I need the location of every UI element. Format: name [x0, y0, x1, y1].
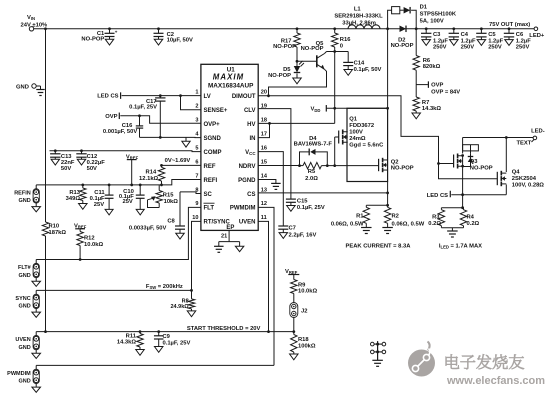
- svg-text:20: 20: [261, 90, 267, 96]
- svg-text:0.1µF, 25V: 0.1µF, 25V: [129, 104, 157, 110]
- svg-text:2.0Ω: 2.0Ω: [305, 176, 318, 182]
- svg-text:25V: 25V: [122, 199, 132, 205]
- svg-text:D1: D1: [420, 5, 428, 11]
- svg-text:NO-POP: NO-POP: [391, 43, 414, 49]
- svg-text:100V: 100V: [349, 129, 363, 135]
- svg-text:0.001µF, 50V: 0.001µF, 50V: [103, 129, 137, 135]
- svg-text:BAV16WS-7-F: BAV16WS-7-F: [294, 142, 333, 148]
- svg-text:R10: R10: [49, 224, 60, 230]
- svg-text:C3: C3: [433, 32, 441, 38]
- svg-text:5: 5: [195, 145, 198, 151]
- svg-text:R14: R14: [146, 170, 157, 176]
- svg-text:2: 2: [195, 104, 198, 110]
- svg-text:250V: 250V: [461, 44, 475, 50]
- svg-text:SYNC: SYNC: [15, 296, 30, 302]
- svg-text:R15: R15: [163, 193, 174, 199]
- svg-text:15: 15: [261, 159, 267, 165]
- svg-text:VDD: VDD: [311, 107, 321, 113]
- svg-text:Q2: Q2: [391, 159, 399, 165]
- svg-text:VREF: VREF: [126, 154, 139, 160]
- svg-text:NO-POP: NO-POP: [470, 165, 493, 171]
- svg-text:LED CS: LED CS: [427, 193, 448, 199]
- svg-text:NO-POP: NO-POP: [391, 166, 414, 172]
- svg-text:10kΩ: 10kΩ: [164, 199, 179, 205]
- svg-text:C6: C6: [516, 32, 524, 38]
- svg-text:HV: HV: [247, 122, 255, 128]
- svg-text:187kΩ: 187kΩ: [49, 230, 67, 236]
- svg-text:12.1kΩ: 12.1kΩ: [139, 176, 159, 182]
- svg-text:Ggd = 5.6nC: Ggd = 5.6nC: [349, 142, 384, 148]
- svg-text:GND: GND: [16, 84, 29, 90]
- svg-text:10.0kΩ: 10.0kΩ: [84, 242, 104, 248]
- svg-text:OVP: OVP: [105, 114, 117, 120]
- svg-text:C4: C4: [461, 32, 469, 38]
- svg-text:24mΩ: 24mΩ: [349, 136, 366, 142]
- svg-text:250V: 250V: [488, 44, 502, 50]
- svg-text:21: 21: [221, 234, 227, 240]
- svg-text:SENSE+: SENSE+: [204, 108, 228, 114]
- svg-text:NDRV: NDRV: [239, 164, 256, 170]
- svg-text:LED-: LED-: [531, 129, 545, 135]
- svg-text:0.06Ω, 0.5W: 0.06Ω, 0.5W: [392, 222, 425, 228]
- svg-text:www.elecfans.com: www.elecfans.com: [446, 375, 545, 387]
- svg-text:50V: 50V: [61, 166, 71, 172]
- svg-text:14.3kΩ: 14.3kΩ: [422, 106, 442, 112]
- svg-text:VREF: VREF: [74, 224, 87, 230]
- svg-text:VREF: VREF: [285, 269, 298, 275]
- svg-text:0.06Ω, 0.5W: 0.06Ω, 0.5W: [331, 222, 364, 228]
- svg-text:START THRESHOLD = 20V: START THRESHOLD = 20V: [187, 326, 261, 332]
- svg-text:0.1µF, 25V: 0.1µF, 25V: [163, 340, 191, 346]
- svg-text:18: 18: [261, 118, 267, 124]
- svg-text:25V: 25V: [94, 202, 104, 208]
- svg-text:SGND: SGND: [204, 136, 222, 142]
- svg-text:CS: CS: [247, 192, 255, 198]
- svg-text:MAX16834AUP: MAX16834AUP: [208, 83, 254, 90]
- svg-text:LED CS: LED CS: [97, 94, 118, 100]
- svg-text:VCC: VCC: [245, 150, 256, 156]
- svg-text:0.2Ω: 0.2Ω: [467, 221, 480, 227]
- svg-text:OVP: OVP: [431, 83, 443, 89]
- svg-text:SC: SC: [204, 192, 213, 198]
- svg-text:GND: GND: [18, 345, 30, 351]
- svg-text:STPS5H100K: STPS5H100K: [420, 12, 457, 18]
- svg-text:OVP = 84V: OVP = 84V: [431, 90, 460, 96]
- svg-text:VIN: VIN: [27, 15, 35, 21]
- svg-text:C16: C16: [122, 123, 133, 129]
- svg-text:GND: GND: [18, 198, 30, 204]
- svg-text:UVEN: UVEN: [239, 220, 256, 226]
- svg-text:FDD3672: FDD3672: [349, 123, 374, 129]
- svg-text:100kΩ: 100kΩ: [298, 343, 316, 349]
- svg-text:R16: R16: [340, 37, 351, 43]
- svg-text:SER2918H-333KL: SER2918H-333KL: [334, 14, 383, 20]
- svg-text:C14: C14: [354, 61, 365, 67]
- svg-text:R4: R4: [467, 214, 475, 220]
- svg-text:EP: EP: [226, 225, 234, 231]
- svg-text:250V: 250V: [516, 44, 530, 50]
- svg-text:R12: R12: [84, 235, 95, 241]
- svg-text:R9: R9: [298, 282, 306, 288]
- svg-text:+: +: [115, 30, 118, 35]
- svg-text:C5: C5: [488, 32, 496, 38]
- svg-text:REF: REF: [204, 164, 216, 170]
- svg-text:12: 12: [261, 201, 267, 207]
- svg-text:11: 11: [261, 215, 267, 221]
- svg-text:Q4: Q4: [512, 170, 521, 176]
- svg-text:NO-POP: NO-POP: [301, 46, 324, 52]
- svg-text:0V~1.69V: 0V~1.69V: [165, 158, 191, 164]
- svg-text:UVEN: UVEN: [15, 337, 30, 343]
- svg-text:FLT: FLT: [204, 206, 215, 212]
- svg-text:C9: C9: [163, 334, 171, 340]
- svg-text:1: 1: [195, 90, 198, 96]
- svg-text:R2: R2: [392, 214, 399, 220]
- svg-text:14: 14: [261, 173, 268, 179]
- svg-text:C15: C15: [297, 198, 308, 204]
- svg-text:R3: R3: [432, 214, 440, 220]
- svg-text:0: 0: [340, 43, 343, 49]
- svg-text:R7: R7: [422, 100, 429, 106]
- svg-text:PWMDIM: PWMDIM: [7, 371, 31, 377]
- svg-text:L1: L1: [354, 7, 362, 13]
- svg-text:R13: R13: [69, 190, 80, 196]
- svg-text:GND: GND: [18, 379, 30, 385]
- svg-text:C7: C7: [289, 225, 296, 231]
- svg-text:Q3: Q3: [470, 159, 479, 165]
- svg-text:13: 13: [261, 187, 267, 193]
- svg-text:7: 7: [195, 173, 198, 179]
- svg-text:GND: GND: [18, 273, 30, 279]
- svg-text:REFIN: REFIN: [14, 190, 31, 196]
- svg-text:9: 9: [195, 201, 198, 207]
- svg-text:COMP: COMP: [204, 150, 222, 156]
- svg-text:PGND: PGND: [238, 178, 256, 184]
- svg-text:LV: LV: [204, 94, 211, 100]
- svg-text:19: 19: [261, 104, 267, 110]
- svg-text:3: 3: [195, 118, 198, 124]
- svg-text:R1: R1: [356, 214, 364, 220]
- svg-text:5A, 100V: 5A, 100V: [420, 19, 444, 25]
- svg-text:IN: IN: [250, 136, 256, 142]
- svg-text:33µH, 2.86m: 33µH, 2.86m: [342, 20, 376, 26]
- svg-text:ILED = 1.7A MAX: ILED = 1.7A MAX: [439, 244, 482, 250]
- svg-text:6: 6: [195, 159, 198, 165]
- svg-text:820kΩ: 820kΩ: [423, 64, 441, 70]
- svg-text:PWMDIM: PWMDIM: [230, 206, 256, 212]
- svg-text:R18: R18: [298, 337, 309, 343]
- svg-text:2.2µF, 16V: 2.2µF, 16V: [289, 233, 317, 239]
- svg-text:ΜΑΧΙΜ: ΜΑΧΙΜ: [213, 73, 245, 82]
- svg-text:0.0033µF, 50V: 0.0033µF, 50V: [129, 225, 167, 231]
- svg-text:CLV: CLV: [244, 108, 256, 114]
- svg-text:DIMOUT: DIMOUT: [232, 94, 256, 100]
- svg-text:0.2Ω: 0.2Ω: [428, 221, 441, 227]
- svg-text:Q1: Q1: [349, 116, 358, 122]
- svg-text:PEAK CURRENT = 8.3A: PEAK CURRENT = 8.3A: [346, 244, 412, 250]
- svg-text:0.1µF, 25V: 0.1µF, 25V: [297, 205, 325, 211]
- svg-text:17: 17: [261, 131, 267, 137]
- svg-text:250V: 250V: [433, 44, 447, 50]
- svg-text:FSW = 200kHz: FSW = 200kHz: [146, 284, 183, 290]
- svg-text:NO-POP: NO-POP: [273, 44, 296, 50]
- svg-text:0.1µF, 50V: 0.1µF, 50V: [354, 67, 382, 73]
- svg-text:24V ±10%: 24V ±10%: [21, 23, 48, 29]
- svg-text:50V: 50V: [87, 166, 97, 172]
- svg-text:J2: J2: [301, 309, 307, 315]
- svg-text:10.0kΩ: 10.0kΩ: [298, 289, 318, 295]
- svg-text:100V, 0.28Ω: 100V, 0.28Ω: [512, 183, 545, 189]
- svg-text:14.3kΩ: 14.3kΩ: [117, 340, 137, 346]
- svg-text:2SK2504: 2SK2504: [512, 176, 537, 182]
- svg-text:GND: GND: [18, 304, 30, 310]
- svg-text:16: 16: [261, 145, 267, 151]
- svg-text:TEXT: TEXT: [517, 141, 532, 147]
- svg-text:75V OUT (max): 75V OUT (max): [489, 22, 530, 28]
- svg-text:24.9kΩ: 24.9kΩ: [171, 304, 190, 310]
- svg-text:R5: R5: [308, 169, 316, 175]
- svg-text:8: 8: [195, 187, 198, 193]
- svg-text:C8: C8: [167, 219, 175, 225]
- svg-text:LED+: LED+: [529, 33, 545, 39]
- svg-text:NO-POP: NO-POP: [81, 37, 104, 43]
- svg-text:NO-POP: NO-POP: [268, 73, 291, 79]
- svg-text:REFI: REFI: [204, 178, 218, 184]
- svg-text:10µF, 50V: 10µF, 50V: [167, 37, 193, 43]
- svg-text:FLT#: FLT#: [18, 265, 31, 271]
- svg-text:OVP+: OVP+: [204, 122, 221, 128]
- svg-text:349Ω: 349Ω: [66, 196, 81, 202]
- svg-text:10: 10: [192, 215, 198, 221]
